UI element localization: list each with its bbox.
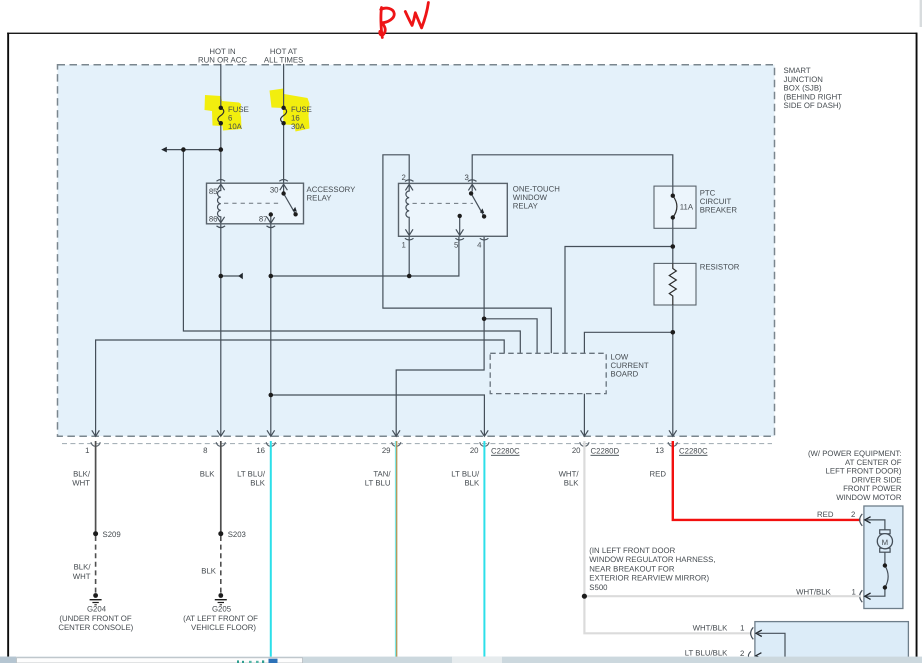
wire stub arrow right of node (220.8,276) [221,275,239,277]
svg-text:(BEHIND RIGHT: (BEHIND RIGHT [784,92,843,101]
svg-text:ALL TIMES: ALL TIMES [264,56,303,65]
wire relay pin86 down to SJB exit pin 8 [220,224,222,436]
svg-text:16: 16 [256,446,265,455]
svg-text:30: 30 [270,186,279,195]
connector arc above pin 2 [405,180,414,182]
connector row dashed line below SJB [62,443,772,445]
svg-text:G204: G204 [87,604,107,613]
wire WHT/BLK from S500 to motor pin 1 [584,595,860,597]
svg-text:11A: 11A [680,203,694,212]
svg-text:2: 2 [851,510,855,519]
switch arm arrowhead [480,208,484,213]
wire pin16 LT BLU/BLK cyan down to bottom [270,441,272,657]
svg-text:10A: 10A [228,122,243,131]
pin 1 arrow down [405,229,413,235]
svg-text:LT BLU/: LT BLU/ [237,469,266,478]
connector at motor pin 2 [860,514,863,526]
svg-text:2: 2 [401,173,405,182]
svg-text:85: 85 [209,187,218,196]
wire pin13 RED down and right to window motor pin 2 [673,441,861,520]
svg-text:1: 1 [401,241,405,250]
wire one-touch pin2 feed from low current board [383,155,551,353]
one-touch window relay box [399,183,508,236]
relay switch arm 30 to 87 [284,194,296,215]
svg-text:C2280C: C2280C [679,447,708,456]
svg-text:2: 2 [740,649,744,658]
svg-text:SMART: SMART [784,66,811,75]
wire S209 dashed to G204 [95,536,97,593]
svg-text:20: 20 [572,446,581,455]
relay switch contact dots [281,191,285,195]
label SMART JUNCTION BOX (SJB) [784,66,843,110]
wire pin8 BLK down to splice S203 [220,441,222,534]
connector arc below pin 1 [405,238,414,240]
exit arrow pin 20 C2280C [481,430,489,436]
svg-text:5: 5 [454,241,459,250]
node arrow left at y=149.6 [161,147,167,153]
svg-text:S500: S500 [589,583,608,592]
wire pin20 C2280D WHT/BLK down to S500 [583,441,585,596]
red handwritten P W [380,3,429,38]
lower module internal wire [757,633,785,663]
resistor [654,263,696,305]
exit arrow pin 8 [217,430,225,436]
connector cup pin 8 [216,442,225,446]
connector cup pin 20 C2280C [480,442,489,446]
wire pin29 TAN/LT BLU down to bottom [395,441,397,657]
underline C2280D [591,454,620,456]
fuse F16 30A yellow highlight [270,89,310,132]
wire WHT/BLK branch from S500 to lower module pin 1 [584,596,751,633]
wire fuse16 to relay pin 30 [283,123,285,183]
fuse F6 symbol [218,108,224,123]
svg-text:WHT/: WHT/ [559,469,580,478]
svg-text:LT BLU/: LT BLU/ [451,469,480,478]
PTC circuit breaker [654,186,696,228]
svg-text:BLK: BLK [564,478,580,487]
wire L3 from node (270.8,395) to SJB exit pin 20 C2280C [271,395,485,436]
svg-text:RUN OR ACC: RUN OR ACC [198,56,247,65]
connector at motor pin 1 [860,590,863,602]
exit arrow pin 16 [267,430,275,436]
connector arc below pin 86 [217,226,226,228]
wire fuse16 feed from HOT AT ALL TIMES [283,64,285,108]
svg-text:RED: RED [817,510,834,519]
wire one-touch pin3 to PTC circuit breaker [472,155,673,186]
pin 87 arrow down [267,217,275,223]
connector arc below pin 87 [267,226,276,228]
svg-text:S203: S203 [228,530,246,539]
junction dot (484.1,318.8) [482,317,487,322]
pin 5 stub arrow down [459,216,461,235]
junction dot PTC bottom branch (672.8,246.5) [671,244,676,249]
svg-text:RED: RED [650,469,667,478]
relay switch contact dots [469,191,473,195]
fuse F16 symbol [281,108,287,123]
svg-text:BOX (SJB): BOX (SJB) [784,84,823,93]
svg-text:1: 1 [851,587,855,596]
svg-text:CENTER CONSOLE): CENTER CONSOLE) [58,623,133,632]
exit arrow pin 20 C2280D [581,430,589,436]
wire fuse6 feed from HOT IN RUN OR ACC [220,64,222,108]
exit arrow pin 29 [392,430,400,436]
splice S500 [582,594,587,599]
svg-text:VEHICLE FLOOR): VEHICLE FLOOR) [191,623,256,632]
svg-text:BREAKER: BREAKER [700,206,738,215]
svg-text:AT CENTER OF: AT CENTER OF [845,458,902,467]
wire S203 dashed to G205 [220,536,222,593]
svg-text:C2280C: C2280C [491,447,520,456]
window motor box [864,506,903,609]
svg-text:G205: G205 [212,604,232,613]
switch arm 3 to 4 [471,193,484,216]
svg-text:FRONT POWER: FRONT POWER [843,484,902,493]
svg-text:M: M [882,538,889,547]
svg-text:29: 29 [382,446,391,455]
wire one-touch pin1 stub down to net87 [408,236,410,276]
wire low current board bottom to SJB exit pin 20 C2280D [583,394,585,436]
svg-text:JUNCTION: JUNCTION [784,75,823,84]
svg-text:RELAY: RELAY [513,202,539,211]
svg-text:BLK: BLK [464,478,480,487]
pin 2 arrow up [405,184,413,190]
pin 85-86 vertical with coil [217,184,220,223]
smart junction box SJB dashed outline and fill [58,65,775,436]
svg-text:1: 1 [85,446,89,455]
junction dot (270.8,276) [269,274,274,279]
svg-text:WHT: WHT [72,478,90,487]
svg-text:(AT LEFT FRONT OF: (AT LEFT FRONT OF [183,614,258,623]
underline C2280C (pin13) [679,454,708,456]
svg-text:1: 1 [740,624,744,633]
pin 2-1 vertical with coil [406,184,409,235]
wire one-touch pin4 down to jog and SJB exit pin 29 [396,236,484,435]
connector cup pin 29 [392,442,401,446]
wire pin1 BLK/WHT down to splice S209 [95,441,97,534]
accessory relay box [207,183,304,224]
motor M symbol [880,530,890,534]
svg-text:BLK: BLK [201,567,217,576]
svg-text:(W/ POWER EQUIPMENT:: (W/ POWER EQUIPMENT: [808,449,902,458]
svg-text:WHT/BLK: WHT/BLK [693,623,728,632]
exit arrow pin 1 [92,430,100,436]
svg-text:BLK/: BLK/ [74,563,92,572]
svg-text:S209: S209 [103,530,121,539]
svg-text:EXTERIOR REARVIEW MIRROR): EXTERIOR REARVIEW MIRROR) [589,574,709,583]
splice S203 [218,531,223,536]
junction dot (220.8,276) [219,274,224,279]
stub arrowhead at node (220.8,276) [238,273,243,280]
svg-text:(IN LEFT FRONT DOOR: (IN LEFT FRONT DOOR [589,546,675,555]
junction dot resistor bottom branch (672.8,332.3) [671,330,676,335]
junction dot (183.4,149.6) [181,147,186,152]
connector arc above pin 3 [468,180,477,182]
wire resistor junction branch to low current board [584,332,672,353]
wire pin20 LT BLU/BLK cyan down to bottom [483,441,485,657]
wire resistor bottom to SJB exit pin 13 [672,305,674,436]
svg-text:87: 87 [259,215,268,224]
junction dot (270.8,395) [269,393,274,398]
junction dot (220.8,149.6) [219,147,224,152]
connector arc below pin 4 [480,238,489,240]
pin 86 arrow down [217,217,225,223]
wire fuse6 to junction and relay pin 85 [220,123,222,183]
svg-text:C2280D: C2280D [591,447,620,456]
svg-text:DRIVER SIDE: DRIVER SIDE [852,475,902,484]
connector arc below pin 5 [455,238,464,240]
connector cup pin 13 C2280C [668,442,677,446]
svg-text:WHT/BLK: WHT/BLK [796,587,831,596]
svg-text:30A: 30A [291,122,306,131]
pin 3 arrow up [468,184,476,190]
low current board dashed box [490,353,606,393]
splice S209 [93,531,98,536]
wire relay pin87 down to SJB exit pin 16 [270,224,272,436]
relay dashed link [413,202,474,204]
connector cup pin 20 C2280D [580,442,589,446]
svg-text:RESISTOR: RESISTOR [700,263,740,272]
svg-text:(UNDER FRONT OF: (UNDER FRONT OF [59,614,131,623]
svg-text:BOARD: BOARD [611,370,639,379]
svg-text:LT BLU/BLK: LT BLU/BLK [685,649,728,658]
svg-text:SIDE OF DASH): SIDE OF DASH) [784,101,842,110]
ground G205 [218,593,223,598]
ground G204 [93,593,98,598]
svg-text:NEAR BREAKOUT FOR: NEAR BREAKOUT FOR [589,564,675,573]
connector cup pin 1 [91,442,100,446]
fuse F6 10A yellow highlight [205,95,242,131]
wire PTC bottom branch to low current board [672,228,674,263]
wire net 87 horizontal to one-touch pins 1 and 5 [271,236,459,276]
pin 30 arrow up [280,184,288,190]
svg-text:BLK/: BLK/ [73,469,91,478]
svg-text:BLK: BLK [250,478,266,487]
svg-text:TAN/: TAN/ [373,469,391,478]
svg-text:BLK: BLK [200,469,216,478]
svg-text:8: 8 [203,446,207,455]
svg-text:LEFT FRONT DOOR): LEFT FRONT DOOR) [826,467,902,476]
svg-text:RELAY: RELAY [307,194,333,203]
lower module box [755,622,909,663]
wire branch pin4 net to low current board [484,319,537,354]
svg-text:4: 4 [477,241,482,250]
connector arc above pin 85 [217,180,226,182]
wire L2 ground net from LCB to SJB exit pin 1 [96,340,505,436]
junction dot (409.2,276) [407,274,412,279]
svg-text:86: 86 [209,215,218,224]
motor internal wiring [866,520,888,596]
connector at lower module pin 1 [751,627,754,639]
svg-text:20: 20 [470,446,479,455]
switch arm arrowhead [293,207,297,212]
relay dashed link [224,202,281,204]
exit arrow pin 13 C2280C [669,430,677,436]
wire branch x=183.4 down to L1 [183,150,520,354]
svg-text:WHT: WHT [73,572,91,581]
svg-text:WINDOW MOTOR: WINDOW MOTOR [836,493,902,502]
connector arc above pin 30 [279,180,288,182]
svg-text:13: 13 [655,446,664,455]
svg-text:3: 3 [464,173,468,182]
svg-text:WINDOW REGULATOR HARNESS,: WINDOW REGULATOR HARNESS, [589,555,715,564]
svg-text:LT BLU: LT BLU [365,478,391,487]
connector cup pin 16 [266,442,275,446]
underline C2280C [491,454,520,456]
pin 85 arrow up [217,184,225,190]
wire stub with left arrow at node (220.8,149.6) [163,149,221,151]
